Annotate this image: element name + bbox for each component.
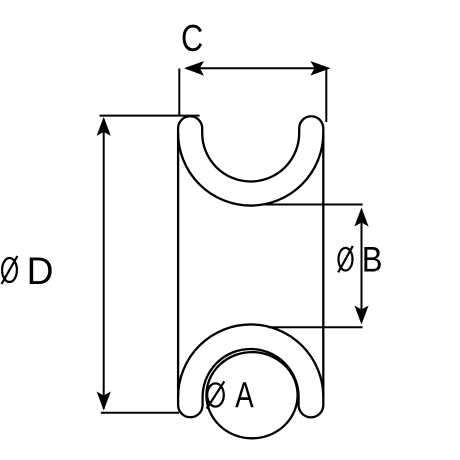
dimension ØB: top extension tick bbox=[265, 204, 363, 206]
dimension ØD: top extension tick bbox=[100, 115, 200, 117]
dimension C: label bbox=[183, 25, 202, 52]
dimension C: extension line left bbox=[178, 69, 180, 116]
dimension ØA: label A bbox=[235, 382, 253, 407]
body right side edge bbox=[322, 133, 324, 397]
bottom arch (lower flange profile) bbox=[178, 324, 323, 417]
dimension ØB: bottom extension tick bbox=[268, 326, 363, 328]
dimension C: dimension line with arrows bbox=[186, 67, 329, 69]
dimension C: extension line right bbox=[325, 68, 327, 123]
dimension ØB: dimension line with arrows bbox=[361, 210, 363, 323]
body left side edge bbox=[177, 133, 179, 397]
dimension ØB: label B bbox=[364, 247, 380, 272]
dimension ØA: label Ø (diameter symbol) bbox=[207, 381, 225, 408]
dimension ØD: label D bbox=[30, 257, 52, 284]
roller circle (ØA) bbox=[206, 352, 297, 438]
dimension ØD: bottom extension tick bbox=[101, 412, 179, 414]
dimension ØD: dimension line with arrows bbox=[103, 119, 105, 409]
top rope groove (U-profile) bbox=[178, 116, 323, 205]
dimension ØD: label Ø (diameter symbol) bbox=[2, 256, 18, 284]
dimension ØB: label Ø (diameter symbol) bbox=[338, 246, 353, 272]
